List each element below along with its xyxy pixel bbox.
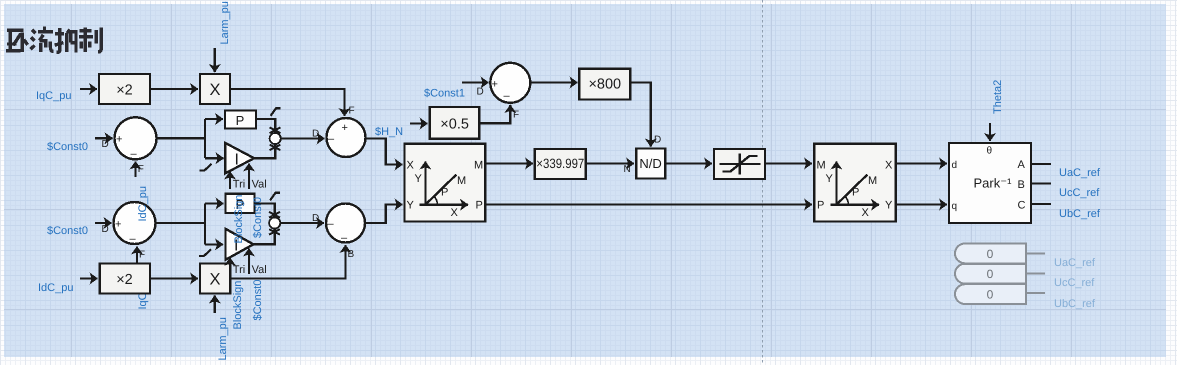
svg-text:IdC_pu: IdC_pu bbox=[137, 186, 149, 221]
wire F stub into circle1a bottom bbox=[134, 162, 136, 178]
svg-text:X: X bbox=[451, 207, 459, 219]
svg-text:C: C bbox=[1018, 200, 1026, 212]
svg-text:P: P bbox=[441, 187, 448, 199]
Tri Val arrows (row2) bbox=[229, 258, 231, 274]
svg-text:P: P bbox=[817, 200, 824, 212]
svg-text:Val: Val bbox=[252, 179, 267, 191]
svg-text:×0.5: ×0.5 bbox=[440, 116, 469, 132]
svg-text:Y: Y bbox=[885, 200, 893, 212]
svg-text:B: B bbox=[1018, 179, 1025, 191]
rectangular converter block MP to XY bbox=[814, 144, 896, 222]
svg-text:X: X bbox=[407, 160, 415, 172]
svg-text:I: I bbox=[235, 152, 239, 169]
svg-text:×2: ×2 bbox=[116, 83, 133, 99]
wire x2 to X (row2) bbox=[150, 277, 198, 279]
wire Park C output stub bbox=[1031, 203, 1051, 205]
wire P output into merge (row1) bbox=[256, 119, 275, 133]
wire circle3 to x800 bbox=[530, 81, 577, 83]
divider block N/D bbox=[636, 149, 665, 179]
I block triangle (row2) bbox=[226, 229, 254, 260]
svg-text:M: M bbox=[457, 175, 466, 187]
svg-text:IdC_pu: IdC_pu bbox=[38, 282, 73, 294]
arrow into P (row1) bbox=[216, 118, 223, 120]
wire x2 to X (row1) bbox=[150, 88, 198, 90]
svg-text:UcC_ref: UcC_ref bbox=[1054, 277, 1095, 289]
wire Park A output stub bbox=[1031, 163, 1051, 165]
svg-text:+: + bbox=[115, 219, 121, 231]
svg-text:BlockSign: BlockSign bbox=[232, 281, 244, 330]
wire XY M output to x339.997 bbox=[485, 162, 533, 164]
svg-text:F: F bbox=[349, 106, 355, 117]
gain block x2 (row2) bbox=[100, 264, 150, 294]
limit marker at P output (row2) bbox=[270, 193, 280, 201]
wire I output into merge (row1) bbox=[254, 145, 275, 159]
arrow into I (row2) bbox=[216, 243, 223, 245]
arrow into P (row2) bbox=[216, 202, 224, 204]
svg-text:X: X bbox=[885, 160, 893, 172]
wire circle1a output and split bbox=[157, 119, 224, 158]
svg-text:–: – bbox=[341, 232, 348, 244]
svg-text:+: + bbox=[492, 79, 498, 91]
I block triangle (row1) bbox=[225, 143, 254, 173]
wire stub into x0.5 bbox=[410, 122, 428, 124]
wire X2 output to circle2b B input bbox=[230, 245, 345, 279]
svg-text:D: D bbox=[312, 129, 319, 140]
svg-text:Park⁻¹: Park⁻¹ bbox=[974, 176, 1013, 191]
merge circle (row1) bbox=[270, 133, 281, 144]
wire MP Y output to Park q bbox=[896, 203, 947, 205]
gain block x2 (row1) bbox=[99, 74, 150, 104]
svg-text:0: 0 bbox=[987, 288, 994, 302]
svg-text:D: D bbox=[477, 87, 484, 98]
summer circle2a bbox=[114, 202, 156, 245]
wire MP X output to Park d bbox=[896, 162, 947, 164]
wire $Const0 stub (row2) bbox=[95, 222, 112, 224]
svg-text:A: A bbox=[1018, 159, 1026, 171]
svg-text:IqC_pu: IqC_pu bbox=[36, 90, 71, 102]
svg-text:–: – bbox=[131, 148, 138, 160]
svg-text:$Const1: $Const1 bbox=[424, 88, 465, 100]
svg-text:×800: ×800 bbox=[588, 77, 621, 93]
svg-text:0: 0 bbox=[987, 247, 994, 261]
svg-text:+: + bbox=[342, 122, 348, 134]
svg-text:F: F bbox=[513, 110, 519, 121]
svg-text:UaC_ref: UaC_ref bbox=[1054, 257, 1096, 269]
svg-text:UbC_ref: UbC_ref bbox=[1059, 208, 1101, 220]
wire circle1b output to XY block X input bbox=[366, 139, 403, 165]
svg-text:UaC_ref: UaC_ref bbox=[1059, 167, 1101, 179]
svg-text:F: F bbox=[139, 250, 145, 261]
polar converter block XY to MP bbox=[405, 144, 486, 222]
wire Theta2 into Park top bbox=[989, 123, 991, 141]
svg-text:D: D bbox=[312, 213, 319, 224]
wire XY P output to MP block P input (long) bbox=[485, 203, 812, 205]
svg-text:–: – bbox=[328, 133, 335, 145]
page boundary dashed line bbox=[762, 0, 764, 365]
svg-text:N: N bbox=[624, 164, 631, 175]
Park inverse block bbox=[949, 143, 1031, 223]
svg-text:Larm_pu: Larm_pu bbox=[217, 317, 229, 360]
limit marker at I input (row2) bbox=[199, 249, 211, 256]
wire F stub into circle2a bottom bbox=[136, 247, 138, 263]
merge arrow crosses (row2) bbox=[269, 212, 280, 235]
wire N/D to limiter bbox=[665, 162, 712, 164]
svg-text:UcC_ref: UcC_ref bbox=[1059, 187, 1100, 199]
svg-text:Tri: Tri bbox=[233, 179, 245, 191]
svg-text:X: X bbox=[862, 207, 870, 219]
svg-text:$Const0: $Const0 bbox=[252, 280, 264, 321]
svg-text:M: M bbox=[868, 175, 877, 187]
title 环流抑制 bbox=[6, 27, 101, 53]
svg-text:$Const0: $Const0 bbox=[47, 141, 88, 153]
wire Larm_pu into X top (row1) bbox=[214, 48, 216, 72]
multiplier block X (row1) bbox=[200, 74, 230, 104]
wire limiter to MP block M input bbox=[765, 162, 812, 164]
wire Larm_pu into X bottom (row2) bbox=[214, 296, 216, 314]
wire circle2a output and split (row2) bbox=[156, 204, 224, 245]
svg-text:–: – bbox=[130, 233, 137, 245]
wire x339.997 to N/D bbox=[586, 162, 634, 164]
svg-text:M: M bbox=[817, 160, 826, 172]
wire x800 to N/D D input bbox=[630, 83, 651, 147]
svg-text:Larm_pu: Larm_pu bbox=[219, 1, 231, 44]
wire merge to circle1b D bbox=[281, 137, 325, 139]
P block (row2) bbox=[226, 194, 255, 213]
svg-text:M: M bbox=[474, 160, 483, 172]
svg-text:P: P bbox=[852, 187, 859, 199]
svg-text:X: X bbox=[209, 271, 220, 289]
wire circle2b output to XY block Y input bbox=[365, 205, 403, 224]
svg-text:0: 0 bbox=[987, 267, 994, 281]
limit marker at I input (row1) bbox=[200, 164, 212, 171]
svg-text:$Const0: $Const0 bbox=[47, 225, 88, 237]
svg-text:Y: Y bbox=[415, 173, 423, 185]
svg-text:D: D bbox=[654, 135, 661, 146]
summer circle3 bbox=[490, 63, 530, 103]
svg-text:Y: Y bbox=[407, 200, 415, 212]
gain block x800 bbox=[579, 69, 630, 100]
svg-text:B: B bbox=[348, 249, 355, 260]
svg-text:Y: Y bbox=[826, 173, 834, 185]
svg-text:–: – bbox=[328, 218, 335, 230]
wire I output into merge (row2) bbox=[253, 229, 274, 244]
svg-text:Val: Val bbox=[252, 264, 267, 276]
svg-text:+: + bbox=[116, 134, 122, 146]
wire x0.5 output into circle3 F bbox=[479, 105, 510, 123]
svg-text:P: P bbox=[476, 200, 483, 212]
wire Park B output stub bbox=[1031, 182, 1051, 184]
merge arrow crosses (row1) bbox=[270, 127, 281, 150]
P block (row1) bbox=[225, 111, 256, 129]
svg-text:θ: θ bbox=[987, 146, 993, 157]
summer circle1b bbox=[327, 118, 366, 157]
multiplier block X (row2) bbox=[200, 264, 230, 294]
gain block x0.5 bbox=[430, 107, 480, 139]
svg-text:X: X bbox=[209, 81, 220, 99]
svg-text:UbC_ref: UbC_ref bbox=[1054, 298, 1096, 310]
meter channel 2 bbox=[955, 264, 1045, 284]
svg-text:×2: ×2 bbox=[116, 272, 133, 288]
svg-text:Theta2: Theta2 bbox=[992, 80, 1004, 114]
limit marker at P output (row1) bbox=[271, 108, 281, 116]
wire IqC_pu stub bbox=[80, 88, 97, 90]
svg-text:P: P bbox=[236, 113, 245, 128]
summer circle1a bbox=[115, 117, 157, 160]
meter channel 3 bbox=[955, 284, 1045, 304]
svg-text:D: D bbox=[102, 224, 109, 235]
svg-text:–: – bbox=[504, 90, 511, 102]
svg-text:BlockSign: BlockSign bbox=[233, 195, 245, 244]
svg-text:N/D: N/D bbox=[639, 156, 661, 171]
svg-text:q: q bbox=[952, 201, 958, 212]
meter channel 1 bbox=[955, 243, 1045, 263]
wire merge to circle2b D bbox=[280, 222, 324, 224]
wire $Const1 stub into circle3 bbox=[462, 81, 489, 83]
svg-text:×339.997: ×339.997 bbox=[536, 156, 584, 171]
limiter block bbox=[714, 149, 765, 179]
arrow into I (row1) bbox=[217, 157, 224, 159]
svg-text:d: d bbox=[952, 160, 958, 171]
wire $Const0 stub (row1) bbox=[95, 137, 113, 139]
gain block x339.997 bbox=[535, 149, 586, 179]
svg-text:$H_N: $H_N bbox=[375, 126, 403, 138]
wire X output to summer F (row1) bbox=[230, 89, 345, 116]
wire P output into merge (row2) bbox=[255, 204, 275, 218]
summer circle2b bbox=[326, 204, 365, 245]
wire IdC_pu stub bbox=[80, 277, 98, 279]
svg-text:D: D bbox=[102, 139, 109, 150]
merge circle (row2) bbox=[269, 217, 280, 228]
svg-text:F: F bbox=[138, 164, 144, 175]
Tri Val arrows (row1) bbox=[229, 172, 231, 190]
svg-text:Tri: Tri bbox=[233, 264, 245, 276]
